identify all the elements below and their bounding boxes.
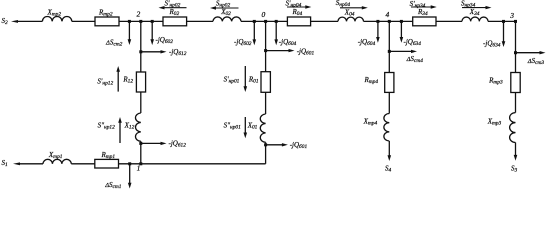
- wire bottom bus: Xtr1 to Rtr1: [71, 163, 95, 165]
- wire Rtr4 to Xtr4: [388, 92, 390, 113]
- label S4: [385, 165, 392, 174]
- inductor X02: [213, 17, 241, 21]
- svg-text:1: 1: [137, 163, 141, 172]
- junction at -jQb34 tap node 4: [400, 20, 403, 23]
- label -jQb04 at node 0: [279, 38, 297, 47]
- label flow S'nr12: [97, 78, 113, 87]
- resistor Rtr3: [511, 73, 520, 93]
- resistor R34: [413, 17, 436, 26]
- label flow Snr04: [336, 0, 351, 8]
- label dSst3: [527, 57, 545, 66]
- label X02: [220, 8, 231, 17]
- label R04: [292, 8, 303, 17]
- svg-text:3: 3: [509, 11, 514, 20]
- junction dSst3: [514, 51, 517, 54]
- inductor X34: [462, 17, 488, 21]
- arrow -jQb01 top (points right): [266, 49, 295, 52]
- label flow S"nr12: [98, 122, 116, 131]
- inductor X12: [135, 113, 140, 141]
- arrow dSst3 (points right): [516, 51, 546, 54]
- label flow S"nr01: [224, 122, 242, 131]
- label Rtr4: [364, 76, 379, 85]
- resistor R04: [287, 17, 310, 26]
- wire X01 to bottom bus: [265, 142, 267, 164]
- resistor R02: [163, 17, 187, 26]
- label X04: [344, 9, 355, 18]
- wire node 2 down to R12: [140, 21, 142, 72]
- node 0 junction: [264, 20, 267, 23]
- label S3: [511, 165, 518, 174]
- label R12: [122, 76, 133, 85]
- arrow -jQb02 at node 2 (down): [150, 21, 154, 45]
- label R02: [169, 8, 180, 17]
- svg-text:0: 0: [262, 10, 266, 19]
- label Xtr4: [363, 118, 378, 127]
- node 3 label: [509, 11, 514, 20]
- label -jQb34 at node 4: [404, 38, 422, 47]
- inductor Xtr3: [510, 113, 516, 143]
- label Xtr3: [487, 118, 502, 127]
- arrow flow S'nr01 (points down): [244, 66, 248, 92]
- label Rtr2: [98, 9, 113, 18]
- junction -jQb01 top: [264, 49, 267, 52]
- arrow flow S'nr02 (points left): [159, 6, 187, 9]
- arrow flow S'nr04 (points right): [287, 5, 311, 8]
- svg-text:4: 4: [386, 10, 390, 19]
- junction at -jQb04 tap node 0: [275, 20, 278, 23]
- label Xtr1: [48, 151, 63, 160]
- inductor Xtr2: [42, 17, 71, 22]
- resistor R12: [136, 72, 145, 92]
- resistor Rtr2: [95, 17, 119, 26]
- junction at -jQb04 tap node 4: [376, 20, 379, 23]
- label flow S'nr34: [410, 0, 426, 9]
- label -jQb12 bottom: [169, 139, 187, 148]
- inductor X01: [260, 114, 265, 142]
- junction dSst4: [388, 50, 391, 53]
- label -jQb02 at node 0: [234, 38, 252, 47]
- arrow flow S"nr01 (points down): [244, 117, 248, 138]
- wire top bus: R34 to X34: [436, 20, 462, 22]
- arrow flow S'nr34 (points right): [411, 5, 437, 8]
- arrow to S3 load (down): [514, 143, 518, 161]
- inductor Xtr1: [43, 159, 71, 164]
- arrow dSst2 (down): [128, 21, 132, 45]
- inductor X04: [338, 17, 364, 21]
- label dSst4: [406, 55, 424, 64]
- arrow S1 (points left): [13, 162, 20, 165]
- arrow to S4 load (down): [388, 141, 392, 161]
- wire node 3 down to Rtr3: [515, 21, 517, 72]
- resistor Rtr4: [385, 73, 394, 93]
- label X34: [469, 8, 480, 17]
- wire R01 to X01: [265, 92, 267, 114]
- label flow S'nr02: [165, 0, 181, 9]
- label Xtr2: [47, 9, 62, 18]
- arrow dSst1 (down): [128, 164, 132, 189]
- resistor Rtr1: [95, 159, 119, 168]
- wire top bus: R02 to X02: [187, 20, 213, 22]
- node 3 junction: [514, 20, 517, 23]
- junction at dSst2 tap: [128, 20, 131, 23]
- node S2 label: [2, 17, 9, 26]
- label -jQb01 bottom: [290, 141, 308, 150]
- wire top bus: S2 arrow to Xtr2: [15, 20, 42, 22]
- label X01: [247, 122, 258, 131]
- label dSst1: [104, 181, 122, 190]
- wire top bus: R04 to X04: [311, 20, 338, 22]
- junction branch 1-2 at bottom bus: [139, 162, 142, 165]
- label -jQb34 at node 3: [483, 40, 501, 49]
- junction -jQb12 bottom: [139, 142, 142, 145]
- node S1 label: [2, 159, 9, 168]
- arrow flow Snr02 (points left): [210, 6, 239, 9]
- label flow Snr34: [461, 0, 476, 8]
- label R01: [248, 76, 259, 85]
- arrow flow Snr34 (points right): [462, 6, 492, 9]
- label X12: [124, 122, 135, 131]
- wire Rtr3 to Xtr3: [515, 93, 517, 113]
- node 4 label: [386, 10, 390, 19]
- junction at -jQb34 tap node 3: [502, 20, 505, 23]
- wire X12 to bottom bus: [140, 141, 142, 164]
- arrow flow Snr04 (points right): [340, 6, 368, 9]
- wire top bus: X02 to R04 (node 0 section): [241, 20, 287, 22]
- label R34: [417, 8, 428, 17]
- node 0 label: [262, 10, 266, 19]
- arrow -jQb34 at node 3 (down): [502, 21, 506, 47]
- arrow -jQb34 at node 4 (down): [400, 21, 404, 42]
- label -jQb12 top: [169, 48, 187, 57]
- junction at -jQb02 tap node 0: [253, 20, 256, 23]
- label -jQb01 top: [297, 47, 315, 56]
- wire bottom bus: S1 arrow to Xtr1: [17, 163, 43, 165]
- junction -jQb01 bottom: [264, 143, 267, 146]
- wire R12 to X12: [140, 92, 142, 113]
- arrow -jQb04 at node 0 (down): [274, 21, 278, 45]
- wire node 0 down to R01: [265, 21, 267, 71]
- node 1 label: [137, 163, 141, 172]
- wire node 4 down to Rtr4: [388, 21, 390, 72]
- label flow S'nr04: [286, 0, 302, 9]
- label flow S'nr01: [224, 76, 240, 85]
- label -jQb04 at node 4: [358, 38, 376, 47]
- label -jQb02 at node 2: [156, 36, 174, 45]
- wire bottom bus: Rtr1 to node 0 branch: [119, 163, 266, 165]
- arrow flow S'nr12 (points up): [116, 66, 120, 92]
- inductor Xtr4: [384, 114, 389, 142]
- label Rtr3: [488, 77, 503, 86]
- arrow -jQb01 bottom (points right): [266, 143, 288, 146]
- label dSst2: [105, 38, 123, 47]
- arrow -jQb04 at node 4 (down): [376, 21, 380, 42]
- node 1 junction: [128, 162, 131, 165]
- wire top bus: X34 to node 3: [488, 20, 516, 22]
- arrow flow S"nr12 (points up): [118, 117, 122, 143]
- wire top bus: X04 to R34 (node 4 section): [364, 20, 413, 22]
- junction -jQb12 top: [139, 50, 142, 53]
- arrow dSst4 (points right): [389, 50, 417, 53]
- arrow -jQb12 bottom (points right): [141, 142, 167, 145]
- arrow S2 (points left): [11, 20, 18, 23]
- arrow -jQb12 top (points right): [141, 50, 167, 53]
- wire top bus: Xtr2 to Rtr2: [72, 20, 95, 22]
- node 2 label: [137, 10, 141, 19]
- svg-text:Sнр04: Sнр04: [336, 0, 351, 8]
- wire top bus: Rtr2 to R02 (node 2 section): [119, 20, 163, 22]
- label Rtr1: [101, 151, 116, 160]
- node 4 junction: [388, 20, 391, 23]
- node 2 junction: [139, 20, 142, 23]
- arrow -jQb02 at node 0 (down): [253, 21, 257, 45]
- resistor R01: [261, 72, 270, 93]
- svg-text:2: 2: [137, 10, 141, 19]
- label flow Snr02: [216, 0, 231, 8]
- junction at -jQb02 tap: [151, 20, 154, 23]
